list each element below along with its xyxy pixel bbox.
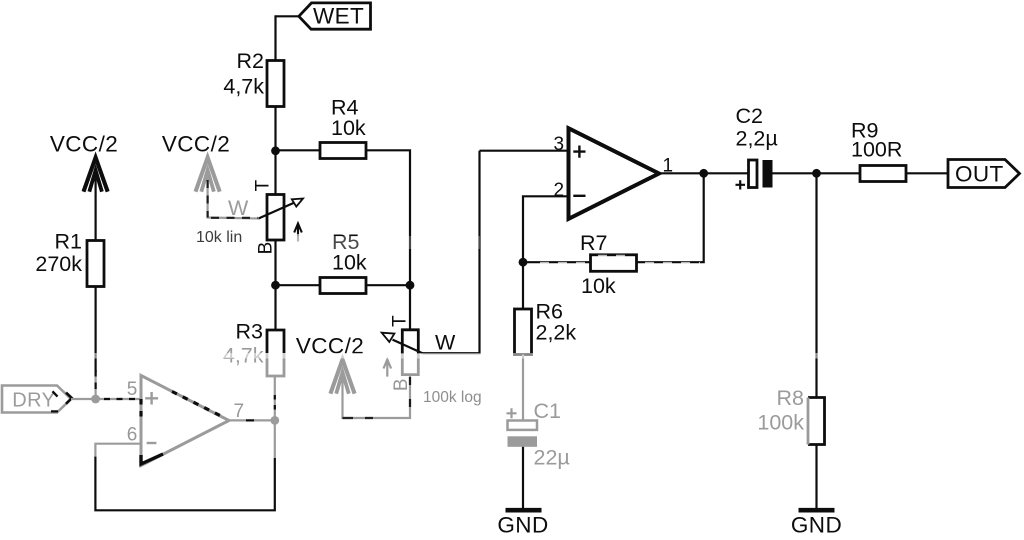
wire C2 to node bbox=[773, 172, 817, 174]
svg-text:GND: GND bbox=[497, 513, 548, 538]
svg-text:W: W bbox=[435, 331, 456, 355]
svg-text:10k: 10k bbox=[331, 116, 366, 140]
op-amp U2 + input bbox=[573, 146, 585, 158]
pot P2 body (two-tone) bbox=[402, 330, 418, 354]
wire VCC/2 #2 to wiper bbox=[208, 172, 259, 219]
power VCC/2 #2 arrow (gray) bbox=[196, 158, 220, 192]
svg-text:C1: C1 bbox=[534, 399, 561, 423]
resistor R9 bbox=[860, 166, 906, 182]
wire R7 to node bbox=[523, 261, 591, 263]
resistor R4 bbox=[320, 143, 366, 159]
ground GND #1 bbox=[506, 508, 542, 513]
wire C1 to GND bbox=[522, 447, 524, 508]
wire right rail to pot2 bbox=[409, 285, 411, 330]
svg-text:DRY: DRY bbox=[12, 390, 55, 412]
resistor R8 (two-tone) bbox=[808, 398, 825, 445]
wire node to R6 bbox=[522, 262, 524, 309]
svg-text:22µ: 22µ bbox=[534, 446, 570, 470]
pot P2 wiper arrow bbox=[393, 340, 423, 354]
wire node B to R3 bbox=[274, 285, 276, 330]
wire R6 to C1 (gray) bbox=[522, 355, 524, 421]
resistor R1 bbox=[87, 241, 104, 287]
svg-text:6: 6 bbox=[127, 425, 138, 446]
pot P1 wiper arrow bbox=[259, 203, 295, 219]
ground GND #2 bbox=[799, 508, 835, 513]
svg-text:4,7k: 4,7k bbox=[223, 75, 264, 99]
wire pot1 to node B bbox=[274, 240, 276, 285]
wire VCC/2 #3 to pot2 bottom bbox=[343, 374, 411, 418]
wire pot2 wiper W to pin3 rail bbox=[423, 151, 480, 354]
tag DRY bbox=[2, 386, 71, 413]
resistor R5 bbox=[320, 278, 366, 294]
wire pin3 bbox=[480, 150, 569, 152]
svg-text:VCC/2: VCC/2 bbox=[162, 131, 230, 156]
svg-text:VCC/2: VCC/2 bbox=[50, 131, 118, 156]
svg-text:100R: 100R bbox=[851, 138, 902, 162]
node B junction bbox=[271, 281, 280, 290]
node A junction bbox=[271, 146, 280, 155]
wire R5 right bbox=[366, 284, 410, 286]
pot P1 adjust arrow bbox=[294, 224, 302, 235]
op-amp U1 watermark dashes bbox=[141, 392, 224, 419]
svg-text:2,2k: 2,2k bbox=[536, 321, 577, 345]
wire node A to pot1 top bbox=[274, 151, 276, 195]
svg-text:R2: R2 bbox=[237, 49, 264, 73]
pot P2 adjust arrow (gray) bbox=[384, 360, 392, 377]
svg-text:WET: WET bbox=[313, 4, 364, 29]
wire residue dashes (R1 to node) bbox=[94, 370, 96, 394]
node dot DRY/R1 bbox=[91, 395, 100, 404]
wire node A to R4 bbox=[276, 149, 321, 151]
svg-text:T: T bbox=[253, 179, 274, 191]
pot P1 body bbox=[267, 195, 284, 241]
wire node B to R5 bbox=[276, 284, 321, 286]
svg-text:R8: R8 bbox=[777, 386, 805, 410]
svg-text:R1: R1 bbox=[55, 230, 82, 254]
svg-text:R3: R3 bbox=[236, 320, 264, 344]
svg-text:10k: 10k bbox=[332, 251, 367, 275]
wire VCC/2 to R1 bbox=[94, 172, 96, 241]
node dot right rail bbox=[406, 281, 415, 290]
tag OUT bbox=[948, 160, 1020, 188]
wire DRY to U1 pin5 bbox=[71, 398, 141, 400]
svg-text:7: 7 bbox=[234, 401, 245, 422]
wire R1 to DRY node bbox=[94, 287, 96, 373]
wire output node to R3 bbox=[274, 376, 276, 420]
svg-text:B: B bbox=[391, 378, 412, 391]
wire R9 to OUT bbox=[906, 172, 948, 174]
svg-text:3: 3 bbox=[554, 134, 565, 155]
svg-text:2: 2 bbox=[554, 180, 565, 201]
C2 plus sign bbox=[736, 180, 746, 189]
op-amp U2 bbox=[569, 128, 660, 219]
wire R2 to node A bbox=[274, 107, 276, 151]
wire WET to R2 bbox=[276, 16, 299, 60]
svg-text:10k lin: 10k lin bbox=[196, 229, 242, 246]
svg-text:B: B bbox=[256, 242, 277, 255]
capacitor C1 (gray electrolytic) bbox=[508, 421, 538, 430]
resistor R6 bbox=[515, 309, 532, 355]
wire pin2 to R7 node bbox=[523, 196, 568, 262]
C1 plus sign bbox=[507, 408, 517, 418]
svg-text:R7: R7 bbox=[580, 231, 607, 255]
svg-text:OUT: OUT bbox=[955, 162, 1004, 187]
wire residue dashes (DRY to pin5) bbox=[104, 398, 139, 400]
svg-text:270k: 270k bbox=[35, 252, 82, 276]
svg-text:2,2µ: 2,2µ bbox=[736, 127, 778, 151]
tag DRY residue marks bbox=[66, 393, 72, 404]
wire R4 to right rail bbox=[366, 150, 410, 285]
resistor R2 bbox=[267, 61, 284, 107]
tag WET bbox=[299, 3, 371, 29]
svg-text:W: W bbox=[228, 196, 249, 220]
wire U2 output bbox=[659, 172, 748, 174]
node dot R6/R7 bbox=[519, 258, 528, 267]
wire node to R9 bbox=[817, 172, 861, 174]
svg-text:C2: C2 bbox=[736, 104, 763, 128]
svg-text:T: T bbox=[390, 315, 411, 327]
resistor R3 bbox=[267, 330, 284, 353]
svg-text:100k log: 100k log bbox=[423, 389, 482, 406]
svg-text:5: 5 bbox=[127, 379, 138, 400]
svg-text:10k: 10k bbox=[581, 274, 616, 298]
wire U1 pin6 feedback bbox=[95, 444, 141, 457]
op-amp U1 (gray) bbox=[141, 376, 229, 466]
power VCC/2 #1 arrow bbox=[84, 158, 108, 192]
wire node to R8 bbox=[815, 173, 817, 397]
wire R8 to GND bbox=[815, 445, 817, 509]
watermark band bbox=[0, 353, 1024, 359]
svg-text:GND: GND bbox=[791, 513, 842, 538]
power VCC/2 #3 arrow (gray) bbox=[330, 360, 354, 394]
resistor R7 bbox=[591, 255, 637, 271]
op-amp U1 - input bbox=[147, 442, 157, 444]
wire U1 output bbox=[229, 419, 275, 421]
node dot C2/R9/R8 bbox=[812, 169, 821, 178]
capacitor C2 bbox=[749, 160, 758, 188]
op-amp U1 + input bbox=[145, 392, 158, 405]
node dot U1 output bbox=[270, 416, 279, 425]
wire output to R7 bbox=[637, 173, 704, 262]
node dot U2 output bbox=[699, 169, 708, 178]
svg-text:100k: 100k bbox=[757, 411, 804, 435]
op-amp U2 - input bbox=[573, 195, 585, 197]
